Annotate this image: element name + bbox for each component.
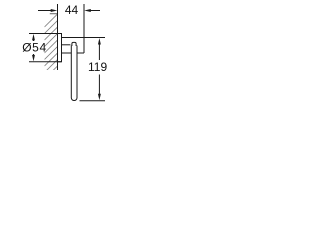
dim 44 left arrow <box>38 9 57 12</box>
svg-text:44: 44 <box>65 3 79 17</box>
dim 119 bottom extension line <box>80 100 106 102</box>
dim 119 top extension line <box>84 37 105 39</box>
dim 119 up arrow <box>98 38 101 60</box>
rod knob cap <box>72 42 76 46</box>
svg-text:Ø54: Ø54 <box>22 40 46 54</box>
right extension line of 44 dim / bracket right edge <box>83 4 85 53</box>
wall top edge <box>50 13 58 15</box>
dim Ø54 top extension line <box>29 33 62 35</box>
bracket bottom left edge <box>62 52 72 54</box>
svg-text:119: 119 <box>88 60 107 74</box>
escutcheon plate (side view) <box>58 34 62 62</box>
bracket bottom right edge <box>77 52 84 54</box>
dim Ø54 bottom extension line <box>29 61 62 63</box>
wall face / left extension line of 44 dim <box>57 4 59 70</box>
bracket top edge <box>62 37 85 39</box>
dim 44 right arrow <box>84 9 100 12</box>
arm lower edge <box>62 44 71 46</box>
rod with rounded bottom <box>71 46 77 101</box>
dim Ø54 up arrow <box>32 34 35 41</box>
hatched wall section <box>45 14 58 79</box>
dim Ø54 down arrow <box>32 54 35 61</box>
dim 119 down arrow <box>98 75 101 101</box>
